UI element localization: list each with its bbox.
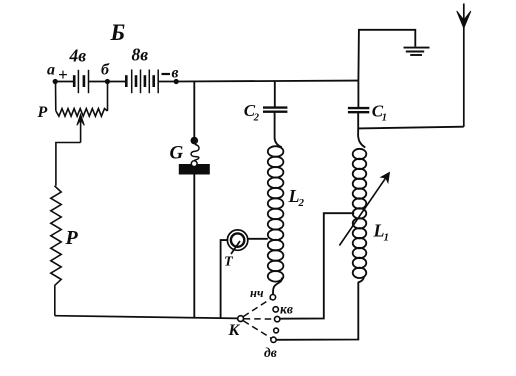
node -в junction dot [174,79,179,84]
contact нч circle [270,295,275,300]
wire C2 down to L2 top hook [275,112,282,148]
label -в (minus terminal) [162,65,179,82]
svg-text:Т: Т [224,255,234,270]
wire wiper to resistor Р top [56,143,81,186]
wire C1 to antenna junction and L1 top hook [358,112,365,147]
svg-text:дв: дв [264,345,277,360]
headphone T inner circle [231,233,244,246]
wire node а to battery 4в [55,81,73,83]
contact spare circle [274,328,279,333]
wire top bus junction down to C2 [274,81,276,107]
potentiometer Р zigzag [56,109,108,117]
label L2 [288,186,305,209]
wire bus junction down to C1 [357,81,359,107]
dashed wiper К to дв [243,321,271,338]
contact middle circle (кв position) [275,316,280,321]
dashed wiper К to middle contact [244,318,275,320]
microphone G spring [191,144,199,160]
svg-text:К: К [228,322,241,339]
svg-text:2: 2 [298,197,305,209]
inductor L2 [268,146,284,281]
svg-text:1: 1 [382,113,387,124]
contact дв circle [271,337,276,342]
headphone T outer circle [227,230,247,250]
microphone G block [179,164,210,175]
capacitor C2 [263,108,287,112]
wire microphone G down to bottom bus [193,175,195,318]
wire node б to battery 8в [107,81,125,83]
potentiometer wiper arrow [77,114,84,142]
resistor Р (vertical) [51,186,61,286]
antenna lead-in wire with down arrow [457,4,471,127]
wire T left lead down to bottom bus [221,240,228,318]
contact кв circle [273,307,278,312]
wire top bus: node -в to C1/ground junction [176,80,358,83]
svg-text:кв: кв [280,302,293,317]
node а junction dot [53,79,58,84]
switch К common contact circle [238,316,244,322]
wire node а down to potentiometer [55,82,57,111]
label C2 [244,101,260,124]
microphone G bead [191,137,199,145]
wire junction up to ground branch [358,30,415,81]
wire top bus junction down to microphone G [193,81,195,137]
wire battery 8в to node -в [158,81,176,83]
svg-text:Р: Р [65,227,79,249]
label C1 [372,102,387,124]
wire battery 4в to node б [89,81,107,83]
wire L1 bottom to switch contact дв [276,277,364,340]
capacitor C1 [348,108,369,112]
wire bottom bus to switch К [55,316,238,319]
svg-text:2: 2 [253,113,260,124]
svg-text:8в: 8в [132,45,149,65]
battery Б section 8в (four cells) [126,70,158,94]
ground symbol [404,48,430,55]
wire node б down to potentiometer right end [107,82,109,111]
node б junction dot [105,79,110,84]
variometer arrow through L1 [339,173,389,246]
svg-text:нч: нч [250,286,264,300]
microphone G button (open circle) [191,161,197,167]
wire antenna to L1/C1 branch [358,127,464,129]
svg-text:Р: Р [37,104,48,121]
headphone T diagonal tail [231,241,240,254]
svg-text:б: б [101,62,110,79]
wire L2 bottom hook to contact нч [273,278,282,295]
wire T right lead to L2 tap [248,238,268,240]
svg-text:Б: Б [110,20,126,45]
battery Б section 4в (two cells) [74,70,88,93]
svg-text:4в: 4в [69,46,87,66]
wire L1 tap to switch contact кв row [280,213,354,319]
svg-text:1: 1 [384,232,390,244]
label L1 [373,221,390,244]
svg-text:в: в [172,65,179,82]
svg-text:а: а [47,62,55,79]
wire resistor Р bottom to bus corner [54,286,56,316]
svg-text:G: G [170,143,184,164]
dashed wiper К to нч [243,299,270,317]
inductor L1 (variometer coil) [353,149,367,278]
